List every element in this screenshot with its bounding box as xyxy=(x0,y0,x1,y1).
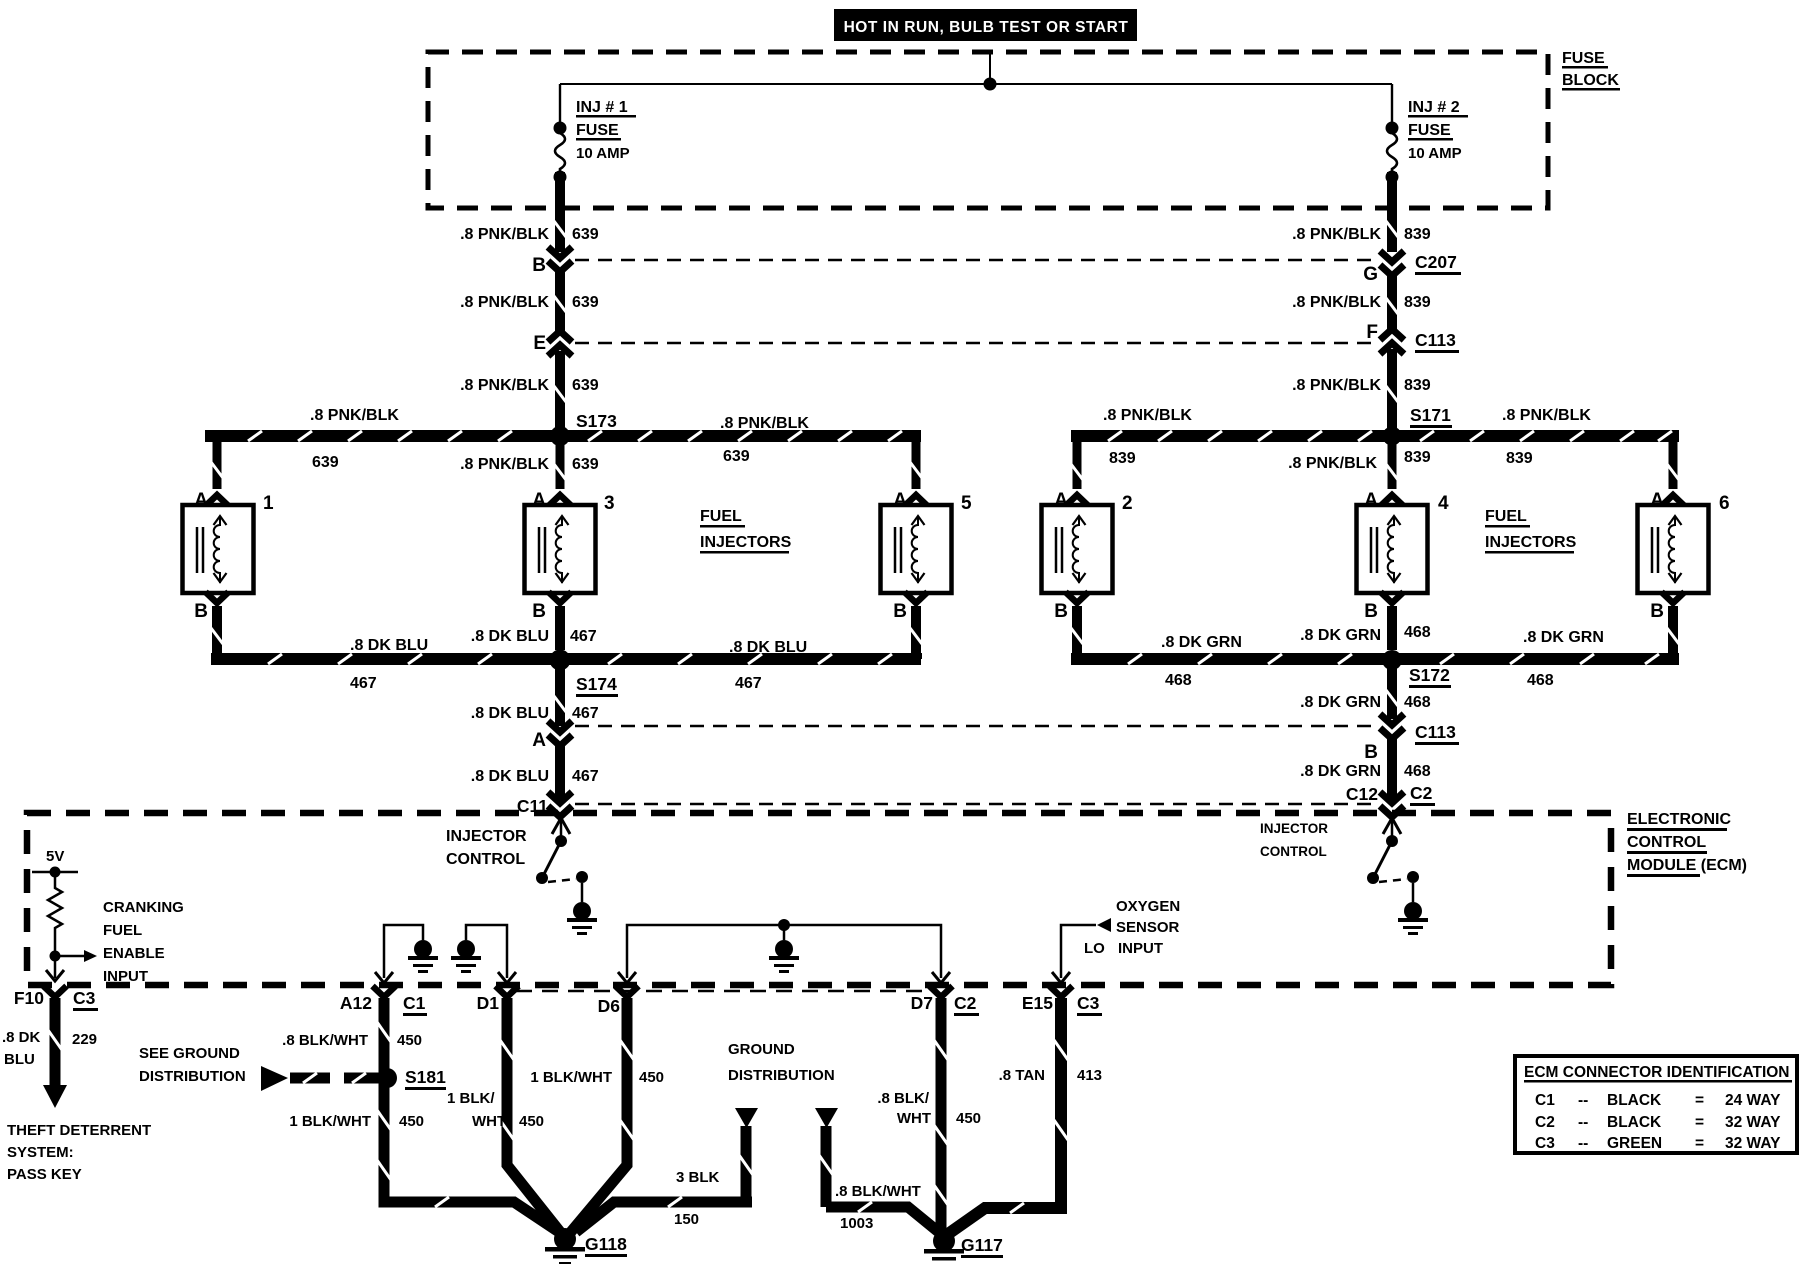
label: .8 PNK/BLK 839 xyxy=(1292,294,1431,311)
svg-text:DISTRIBUTION: DISTRIBUTION xyxy=(139,1068,246,1085)
connector D1 xyxy=(477,986,519,1013)
label: 1 BLK/ WHT 450 D1 xyxy=(447,1090,544,1130)
svg-text:639: 639 xyxy=(572,294,599,311)
svg-text:839: 839 xyxy=(1109,450,1136,467)
injector 6 terminal A xyxy=(1650,490,1684,511)
svg-text:639: 639 xyxy=(312,454,339,471)
label: CRANKING FUEL ENABLE INPUT arrow xyxy=(55,950,97,962)
header: HOT IN RUN, BULB TEST OR START xyxy=(834,9,1137,41)
fuse INJ #1 10 AMP xyxy=(554,122,567,184)
injector control driver left (switch) xyxy=(536,818,588,902)
wire: D6-D7 internal ground link xyxy=(618,925,950,983)
svg-text:INPUT: INPUT xyxy=(103,968,148,985)
wire: S174 to connector A (467) xyxy=(554,666,566,726)
label: .8 DK GRN 468 to C12 xyxy=(1300,763,1431,780)
label: .8 BLK/ WHT 450 D7 xyxy=(877,1090,981,1127)
svg-text:1: 1 xyxy=(263,493,274,514)
svg-text:C113: C113 xyxy=(1415,330,1456,350)
wire: arrow to F10 xyxy=(46,956,64,981)
label: CRANKING FUEL ENABLE INPUT xyxy=(103,899,184,985)
label: 5V xyxy=(46,848,64,865)
wire: drop to injector 5 A xyxy=(910,436,922,489)
label: .8 DK BLU 467 to C11 xyxy=(471,768,599,785)
svg-text:839: 839 xyxy=(1404,294,1431,311)
svg-text:150: 150 xyxy=(674,1211,699,1228)
svg-text:450: 450 xyxy=(397,1032,422,1049)
label: .8 PNK/BLK 639 injector 3 drop xyxy=(460,456,599,473)
label: .8 PNK/BLK 639 xyxy=(460,377,599,394)
wire: 3 BLK 150 to G118 xyxy=(576,1126,753,1232)
svg-text:FUEL: FUEL xyxy=(700,508,742,525)
svg-text:.8 DK BLU: .8 DK BLU xyxy=(471,628,549,645)
label: INJECTOR CONTROL left xyxy=(446,828,527,868)
svg-text:C113: C113 xyxy=(1415,722,1456,742)
svg-text:468: 468 xyxy=(1165,672,1192,689)
svg-text:.8 DK BLU: .8 DK BLU xyxy=(350,637,428,654)
injector 1 terminal B xyxy=(194,592,228,622)
svg-text:THEFT DETERRENT: THEFT DETERRENT xyxy=(7,1122,151,1139)
wire: D1 to G118 (450) xyxy=(500,998,561,1233)
injector 4 terminal A xyxy=(1364,490,1403,511)
svg-text:B: B xyxy=(1364,742,1378,763)
connector C113 pin B xyxy=(1364,714,1459,763)
label: 1 BLK/WHT 450 D6 xyxy=(530,1069,664,1086)
label: .8 DK GRN 468 bottom-right run right xyxy=(1523,629,1604,689)
svg-text:S174: S174 xyxy=(576,674,617,694)
svg-text:FUSE: FUSE xyxy=(576,122,619,139)
svg-text:229: 229 xyxy=(72,1031,97,1048)
svg-text:C2: C2 xyxy=(1410,783,1433,803)
label: INJ # 2 FUSE 10 AMP xyxy=(1408,99,1468,162)
connector F10 xyxy=(14,986,98,1011)
wire: drop to injector 6 A xyxy=(1667,442,1679,489)
injector 1 xyxy=(183,493,275,593)
svg-text:.8 PNK/BLK: .8 PNK/BLK xyxy=(460,456,549,473)
connector E15 xyxy=(1022,986,1102,1016)
svg-text:2: 2 xyxy=(1122,493,1133,514)
connector A (C113) xyxy=(532,721,572,751)
svg-text:450: 450 xyxy=(519,1113,544,1130)
svg-text:450: 450 xyxy=(399,1113,424,1130)
label: INJ # 1 FUSE 10 AMP xyxy=(576,99,636,162)
svg-text:B: B xyxy=(532,255,546,276)
svg-text:B: B xyxy=(1364,601,1378,622)
svg-text:GREEN: GREEN xyxy=(1607,1135,1662,1152)
svg-text:.8 PNK/BLK: .8 PNK/BLK xyxy=(460,377,549,394)
injector 6 terminal B xyxy=(1650,592,1684,622)
svg-text:.8 PNK/BLK: .8 PNK/BLK xyxy=(460,226,549,243)
svg-text:INPUT: INPUT xyxy=(1118,940,1163,957)
svg-text:467: 467 xyxy=(350,675,377,692)
label: .8 PNK/BLK 639 xyxy=(460,226,599,243)
ground: D6-D7 internal xyxy=(769,940,799,973)
svg-text:C1: C1 xyxy=(1535,1092,1555,1109)
svg-text:S172: S172 xyxy=(1409,665,1450,685)
wire: S172 to C113 B (468) xyxy=(1386,666,1398,719)
label: splice S172 xyxy=(1409,665,1451,688)
connector G (C207) xyxy=(1363,251,1461,285)
svg-text:S173: S173 xyxy=(576,411,617,431)
svg-text:CONTROL: CONTROL xyxy=(1627,834,1706,851)
svg-text:468: 468 xyxy=(1404,694,1431,711)
splice S174 xyxy=(550,650,571,671)
ground G117 xyxy=(924,1230,964,1267)
svg-text:--: -- xyxy=(1578,1114,1588,1131)
wire: E15 to G117 (413) xyxy=(948,998,1068,1234)
svg-text:PASS KEY: PASS KEY xyxy=(7,1166,82,1183)
wire: drop to fuse 2 xyxy=(1391,84,1393,126)
svg-text:.8 PNK/BLK: .8 PNK/BLK xyxy=(1288,455,1377,472)
label: splice S171 xyxy=(1410,405,1452,428)
ground: injector control right xyxy=(1398,902,1428,935)
wire: F to splice S171 (839) xyxy=(1386,349,1398,430)
wire: E15 oxygen sensor link xyxy=(1052,918,1111,983)
label: .8 DK GRN 468 injector 4 drop xyxy=(1300,624,1431,644)
connector B xyxy=(532,247,572,276)
svg-text:CONTROL: CONTROL xyxy=(1260,844,1327,859)
svg-text:.8 DK BLU: .8 DK BLU xyxy=(471,768,549,785)
svg-text:--: -- xyxy=(1578,1092,1588,1109)
svg-text:.8 DK GRN: .8 DK GRN xyxy=(1300,694,1381,711)
label: .8 PNK/BLK 639 top-right run xyxy=(720,415,809,465)
label: .8 BLK/WHT 450 xyxy=(282,1032,422,1049)
arrow: to theft deterrent system xyxy=(43,1085,67,1108)
svg-text:.8 DK BLU: .8 DK BLU xyxy=(471,705,549,722)
label: splice S181 xyxy=(405,1067,446,1090)
svg-text:C1: C1 xyxy=(403,993,426,1013)
svg-text:B: B xyxy=(1650,601,1664,622)
node: feed junction xyxy=(984,78,997,91)
svg-text:A12: A12 xyxy=(340,993,372,1013)
svg-text:6: 6 xyxy=(1719,493,1730,514)
wire: G to F (839) xyxy=(1386,276,1398,331)
svg-text:S171: S171 xyxy=(1410,405,1451,425)
svg-text:SENSOR: SENSOR xyxy=(1116,919,1180,936)
svg-text:ELECTRONIC: ELECTRONIC xyxy=(1627,811,1731,828)
wire: horizontal feed bus xyxy=(560,83,1392,85)
ground: D1 internal xyxy=(451,940,481,973)
label: .8 DK BLU 467 injector 3 drop xyxy=(471,628,597,645)
wire: injector feed run left (top) xyxy=(211,431,921,442)
svg-text:C207: C207 xyxy=(1415,252,1457,272)
label: .8 DK GRN 468 bottom-left run right xyxy=(1161,634,1242,689)
ground: injector control left xyxy=(567,902,597,935)
connector F (C113) xyxy=(1366,322,1459,354)
svg-text:SYSTEM:: SYSTEM: xyxy=(7,1144,74,1161)
wire: dashed link A to C113 B xyxy=(575,725,1377,728)
fuse block dashed box xyxy=(428,52,1548,208)
svg-text:INJECTOR: INJECTOR xyxy=(1260,821,1328,836)
label: ELECTRONIC CONTROL MODULE (ECM) xyxy=(1627,811,1747,877)
wire: drop to injector 4 A (839) xyxy=(1386,442,1398,489)
svg-text:ECM CONNECTOR IDENTIFICATION: ECM CONNECTOR IDENTIFICATION xyxy=(1524,1064,1790,1081)
injector 3 xyxy=(525,493,615,593)
svg-text:MODULE (ECM): MODULE (ECM) xyxy=(1627,857,1747,874)
svg-text:FUSE: FUSE xyxy=(1408,122,1451,139)
node: internal ground tap xyxy=(778,919,790,940)
svg-text:C12: C12 xyxy=(1346,784,1378,804)
svg-text:B: B xyxy=(1054,601,1068,622)
label: .8 PNK/BLK 839 top-left run right xyxy=(1103,407,1192,467)
svg-text:D7: D7 xyxy=(911,993,933,1013)
ground G118 xyxy=(545,1228,585,1265)
svg-text:24 WAY: 24 WAY xyxy=(1725,1092,1781,1109)
wire: dashed link C11 to C12 xyxy=(575,803,1377,806)
label: THEFT DETERRENT SYSTEM: PASS KEY xyxy=(7,1122,151,1183)
wire: fuse1 to connector B (639) xyxy=(554,172,566,252)
svg-text:.8 PNK/BLK: .8 PNK/BLK xyxy=(1502,407,1591,424)
svg-text:INJECTORS: INJECTORS xyxy=(1485,534,1577,551)
wire: dashed connector row xyxy=(516,990,933,993)
svg-text:FUSE: FUSE xyxy=(1562,50,1605,67)
svg-text:32 WAY: 32 WAY xyxy=(1725,1114,1781,1131)
svg-text:467: 467 xyxy=(570,628,597,645)
svg-text:G118: G118 xyxy=(585,1234,627,1254)
svg-text:D6: D6 xyxy=(598,996,621,1016)
svg-text:A: A xyxy=(532,730,546,751)
arrow: ground distribution left xyxy=(735,1108,758,1128)
connector C12 xyxy=(1346,783,1435,817)
label: .8 PNK/BLK 839 xyxy=(1292,377,1431,394)
injector 4 terminal B xyxy=(1364,592,1403,622)
svg-text:.8 PNK/BLK: .8 PNK/BLK xyxy=(1103,407,1192,424)
svg-text:.8 PNK/BLK: .8 PNK/BLK xyxy=(720,415,809,432)
injector 6 xyxy=(1638,493,1730,593)
svg-text:ENABLE: ENABLE xyxy=(103,945,165,962)
svg-text:.8 DK GRN: .8 DK GRN xyxy=(1161,634,1242,651)
label: .8 TAN 413 xyxy=(999,1067,1102,1084)
injector 2 terminal B xyxy=(1054,592,1088,622)
connector D6 xyxy=(598,986,639,1016)
svg-text:639: 639 xyxy=(572,456,599,473)
wire: .8 BLK/WHT 1003 to G117 xyxy=(819,1126,941,1234)
wire: feed from fuse block top xyxy=(989,52,991,84)
svg-text:.8 PNK/BLK: .8 PNK/BLK xyxy=(310,407,399,424)
svg-text:413: 413 xyxy=(1077,1067,1102,1084)
svg-text:=: = xyxy=(1695,1114,1704,1131)
wire: A to C11 (467) xyxy=(555,746,565,799)
injector 3 terminal B xyxy=(532,592,571,622)
svg-text:BLACK: BLACK xyxy=(1607,1114,1662,1131)
label: .8 DK BLU 229 xyxy=(2,1029,97,1068)
label: 3 BLK 150 xyxy=(674,1169,720,1228)
wire: A12 to G118 (450) xyxy=(377,998,562,1234)
wire: A12 internal ground link xyxy=(375,925,423,983)
connector E xyxy=(533,331,572,356)
injector 3 terminal A xyxy=(532,490,571,511)
injector 5 xyxy=(881,493,973,593)
svg-text:839: 839 xyxy=(1404,377,1431,394)
wire: dashed link B to G xyxy=(575,259,1377,262)
svg-text:1 BLK/WHT: 1 BLK/WHT xyxy=(289,1113,371,1130)
svg-text:B: B xyxy=(532,601,546,622)
svg-text:.8 BLK/: .8 BLK/ xyxy=(877,1090,930,1107)
injector 5 terminal B xyxy=(893,592,927,622)
label: G118 xyxy=(585,1234,627,1257)
svg-text:C3: C3 xyxy=(73,988,96,1008)
wire: D1 internal ground link xyxy=(466,925,516,983)
svg-text:.8 PNK/BLK: .8 PNK/BLK xyxy=(1292,226,1381,243)
svg-text:468: 468 xyxy=(1404,763,1431,780)
label: .8 PNK/BLK 639 xyxy=(460,294,599,311)
wire: drop to injector 2 A xyxy=(1071,442,1083,489)
wire: injector return run right (bottom) xyxy=(1071,653,1679,664)
wire: D7 to G117 (450) xyxy=(934,998,948,1231)
label: GROUND DISTRIBUTION xyxy=(728,1041,835,1084)
wire: F10 to theft deterrent (229) xyxy=(48,998,62,1085)
injector 1 terminal A xyxy=(194,490,228,511)
wire: injector 6 B down xyxy=(1667,606,1679,653)
svg-text:468: 468 xyxy=(1527,672,1554,689)
fuse INJ #2 10 AMP xyxy=(1386,122,1399,184)
svg-text:.8 BLK/WHT: .8 BLK/WHT xyxy=(835,1183,921,1200)
svg-text:.8 DK BLU: .8 DK BLU xyxy=(729,639,807,656)
label: .8 DK BLU 467 bottom-left run xyxy=(350,637,428,692)
table: ECM connector identification xyxy=(1515,1056,1797,1153)
svg-text:INJECTORS: INJECTORS xyxy=(700,534,792,551)
wire: injector 4 B down (468) xyxy=(1387,606,1397,650)
injector 5 terminal A xyxy=(893,490,927,511)
svg-text:BLACK: BLACK xyxy=(1607,1092,1662,1109)
svg-text:BLOCK: BLOCK xyxy=(1562,72,1619,89)
node: cranking fuel enable tap xyxy=(50,951,61,962)
label: .8 PNK/BLK 839 injector 4 drop xyxy=(1288,449,1431,472)
label: FUEL INJECTORS left xyxy=(700,508,792,554)
wire: injector 5 B down xyxy=(910,606,922,653)
svg-text:.8 PNK/BLK: .8 PNK/BLK xyxy=(1292,377,1381,394)
ECM dashed box xyxy=(27,813,1611,985)
connector A12 xyxy=(340,986,427,1016)
svg-text:INJ # 1: INJ # 1 xyxy=(576,99,628,116)
fuse block label xyxy=(1562,50,1620,91)
svg-text:F10: F10 xyxy=(14,988,44,1008)
node: 5V rail xyxy=(32,867,78,878)
svg-text:E: E xyxy=(533,333,546,354)
svg-text:639: 639 xyxy=(572,377,599,394)
svg-text:468: 468 xyxy=(1404,624,1431,641)
label: .8 BLK/WHT 1003 xyxy=(835,1183,921,1232)
injector 4 xyxy=(1357,493,1450,593)
svg-text:WHT: WHT xyxy=(472,1113,506,1130)
wire: drop to injector 3 A (639) xyxy=(554,442,566,489)
svg-text:FUEL: FUEL xyxy=(103,922,142,939)
wire: B to E (639) xyxy=(554,272,566,331)
svg-text:SEE GROUND: SEE GROUND xyxy=(139,1045,240,1062)
svg-text:LO: LO xyxy=(1084,940,1105,957)
svg-text:.8 DK GRN: .8 DK GRN xyxy=(1300,627,1381,644)
svg-text:C3: C3 xyxy=(1535,1135,1555,1152)
arrow: see ground distribution xyxy=(261,1066,380,1091)
svg-text:F: F xyxy=(1366,322,1378,343)
splice S171 xyxy=(1383,427,1402,446)
svg-text:HOT IN RUN, BULB TEST OR START: HOT IN RUN, BULB TEST OR START xyxy=(844,19,1129,36)
svg-text:.8 BLK/WHT: .8 BLK/WHT xyxy=(282,1032,368,1049)
svg-text:WHT: WHT xyxy=(897,1110,931,1127)
wire: E to splice S173 (639) xyxy=(554,351,566,430)
wire: fuse2 to connector G (839) xyxy=(1386,172,1398,252)
splice S181 xyxy=(377,1068,397,1088)
splice S173 xyxy=(550,426,570,446)
label: INJECTOR CONTROL right xyxy=(1260,821,1328,859)
svg-text:CONTROL: CONTROL xyxy=(446,851,525,868)
label: .8 DK BLU 467 below S174 xyxy=(471,705,599,722)
svg-text:450: 450 xyxy=(639,1069,664,1086)
svg-text:S181: S181 xyxy=(405,1067,446,1087)
wire: C113 to C12 (468) xyxy=(1387,739,1397,799)
svg-text:GROUND: GROUND xyxy=(728,1041,795,1058)
svg-text:FUEL: FUEL xyxy=(1485,508,1527,525)
svg-text:C2: C2 xyxy=(954,993,977,1013)
svg-text:10 AMP: 10 AMP xyxy=(576,145,630,162)
wire: dashed link E to F xyxy=(575,342,1377,345)
svg-text:.8 DK GRN: .8 DK GRN xyxy=(1523,629,1604,646)
resistor: cranking fuel enable pull-up xyxy=(48,872,62,952)
splice S172 xyxy=(1382,650,1402,670)
svg-text:1003: 1003 xyxy=(840,1215,873,1232)
arrow: ground distribution right xyxy=(815,1108,838,1128)
injector 2 xyxy=(1042,493,1133,593)
wire: injector 2 B down xyxy=(1071,606,1083,653)
wire: injector return run left (bottom) xyxy=(211,653,921,664)
svg-text:839: 839 xyxy=(1404,226,1431,243)
label: .8 DK GRN 468 below S172 xyxy=(1300,694,1431,711)
connector C11 xyxy=(517,792,572,817)
injector control driver right (switch) xyxy=(1367,818,1419,902)
label: splice S174 xyxy=(576,674,618,697)
wire: injector 3 B down (467) xyxy=(555,606,565,650)
svg-text:639: 639 xyxy=(723,448,750,465)
svg-text:10 AMP: 10 AMP xyxy=(1408,145,1462,162)
svg-text:=: = xyxy=(1695,1092,1704,1109)
svg-text:5: 5 xyxy=(961,493,972,514)
wire: drop to fuse 1 xyxy=(559,84,561,126)
wire: injector feed run right (top) xyxy=(1071,431,1679,442)
svg-text:C3: C3 xyxy=(1077,993,1100,1013)
svg-text:.8 PNK/BLK: .8 PNK/BLK xyxy=(1292,294,1381,311)
svg-text:.8 TAN: .8 TAN xyxy=(999,1067,1045,1084)
label: .8 PNK/BLK 839 xyxy=(1292,226,1431,243)
svg-text:G: G xyxy=(1363,264,1378,285)
svg-text:32 WAY: 32 WAY xyxy=(1725,1135,1781,1152)
svg-text:467: 467 xyxy=(735,675,762,692)
svg-text:INJ # 2: INJ # 2 xyxy=(1408,99,1460,116)
svg-text:4: 4 xyxy=(1438,493,1449,514)
svg-text:.8 DK: .8 DK xyxy=(2,1029,41,1046)
svg-text:467: 467 xyxy=(572,705,599,722)
svg-text:E15: E15 xyxy=(1022,993,1053,1013)
label: .8 PNK/BLK 839 top-right run right xyxy=(1502,407,1591,467)
injector 2 terminal A xyxy=(1054,490,1088,511)
connector D7 xyxy=(911,986,979,1016)
svg-text:--: -- xyxy=(1578,1135,1588,1152)
svg-text:5V: 5V xyxy=(46,848,64,865)
svg-text:B: B xyxy=(893,601,907,622)
label: .8 PNK/BLK 639 top-left run xyxy=(310,407,399,471)
label: .8 DK BLU 467 bottom-right run xyxy=(729,639,807,692)
svg-text:DISTRIBUTION: DISTRIBUTION xyxy=(728,1067,835,1084)
label: 1 BLK/WHT 450 below S181 xyxy=(289,1113,424,1130)
svg-text:BLU: BLU xyxy=(4,1051,35,1068)
wire: injector 1 B down xyxy=(211,606,223,653)
label: OXYGEN SENSOR LO INPUT xyxy=(1084,898,1180,957)
label: G117 xyxy=(961,1235,1003,1258)
label: splice S173 xyxy=(576,411,618,434)
svg-text:450: 450 xyxy=(956,1110,981,1127)
wire: drop to injector 1 A xyxy=(211,436,223,489)
svg-text:INJECTOR: INJECTOR xyxy=(446,828,527,845)
svg-text:CRANKING: CRANKING xyxy=(103,899,184,916)
svg-text:=: = xyxy=(1695,1135,1704,1152)
